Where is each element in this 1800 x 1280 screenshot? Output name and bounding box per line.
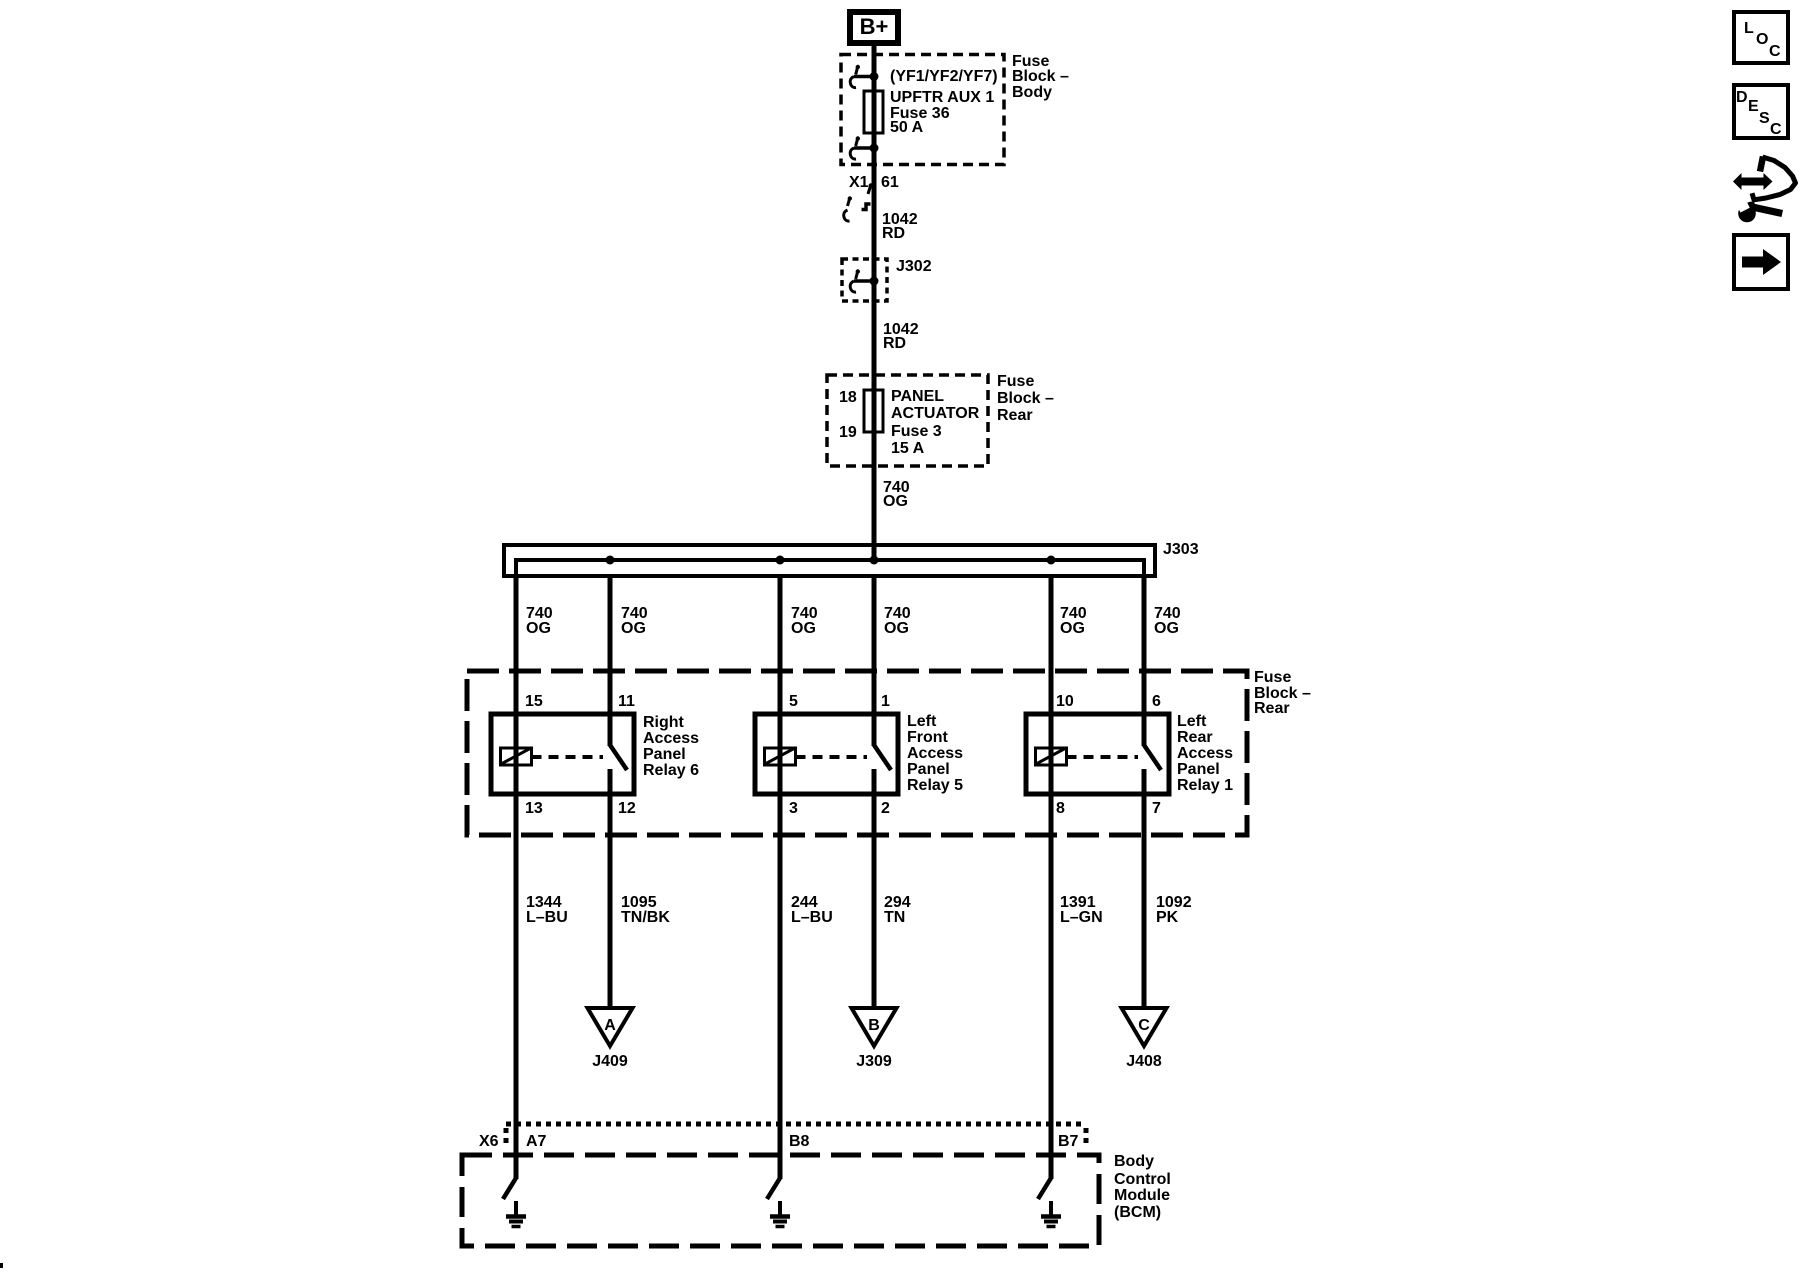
svg-text:Access: Access bbox=[1177, 745, 1233, 762]
svg-text:TN/BK: TN/BK bbox=[621, 909, 670, 926]
svg-text:Panel: Panel bbox=[1177, 761, 1220, 778]
svg-text:15 A: 15 A bbox=[891, 440, 925, 457]
svg-text:Block –: Block – bbox=[1012, 68, 1069, 85]
svg-text:RD: RD bbox=[883, 335, 906, 352]
svg-text:C: C bbox=[1138, 1017, 1150, 1034]
svg-text:J303: J303 bbox=[1163, 541, 1199, 558]
svg-text:13: 13 bbox=[525, 800, 543, 817]
svg-text:Access: Access bbox=[907, 745, 963, 762]
svg-text:15: 15 bbox=[525, 693, 543, 710]
svg-text:OG: OG bbox=[791, 620, 816, 637]
svg-text:2: 2 bbox=[881, 800, 890, 817]
svg-text:12: 12 bbox=[618, 800, 636, 817]
svg-text:6: 6 bbox=[1152, 693, 1161, 710]
svg-text:18: 18 bbox=[839, 389, 857, 406]
svg-text:11: 11 bbox=[618, 693, 635, 710]
svg-text:19: 19 bbox=[839, 424, 857, 441]
svg-text:ACTUATOR: ACTUATOR bbox=[891, 405, 980, 422]
svg-text:OG: OG bbox=[884, 620, 909, 637]
svg-text:Body: Body bbox=[1012, 84, 1052, 101]
svg-text:Left: Left bbox=[1177, 713, 1207, 730]
svg-text:TN: TN bbox=[884, 909, 905, 926]
svg-text:PANEL: PANEL bbox=[891, 388, 944, 405]
svg-text:Fuse: Fuse bbox=[997, 373, 1034, 390]
svg-text:Left: Left bbox=[907, 713, 937, 730]
svg-text:J408: J408 bbox=[1126, 1053, 1162, 1070]
svg-text:Right: Right bbox=[643, 714, 685, 731]
svg-text:E: E bbox=[1748, 98, 1759, 115]
svg-text:10: 10 bbox=[1056, 693, 1074, 710]
svg-text:C: C bbox=[1770, 121, 1782, 138]
svg-text:5: 5 bbox=[789, 693, 798, 710]
svg-text:Panel: Panel bbox=[907, 761, 950, 778]
svg-text:1: 1 bbox=[881, 693, 890, 710]
svg-text:Rear: Rear bbox=[1254, 700, 1290, 717]
svg-text:OG: OG bbox=[1154, 620, 1179, 637]
svg-text:J302: J302 bbox=[896, 258, 932, 275]
svg-text:L: L bbox=[1744, 20, 1754, 37]
svg-text:Fuse 3: Fuse 3 bbox=[891, 423, 942, 440]
svg-text:Body: Body bbox=[1114, 1153, 1154, 1170]
svg-text:50 A: 50 A bbox=[890, 119, 924, 136]
svg-text:Access: Access bbox=[643, 730, 699, 747]
svg-text:PK: PK bbox=[1156, 909, 1179, 926]
svg-text:OG: OG bbox=[1060, 620, 1085, 637]
svg-text:RD: RD bbox=[882, 225, 905, 242]
svg-text:Rear: Rear bbox=[1177, 729, 1213, 746]
svg-text:61: 61 bbox=[881, 174, 899, 191]
svg-text:B8: B8 bbox=[789, 1133, 810, 1150]
svg-text:OG: OG bbox=[621, 620, 646, 637]
svg-text:B7: B7 bbox=[1058, 1133, 1079, 1150]
svg-text:J409: J409 bbox=[592, 1053, 628, 1070]
svg-text:S: S bbox=[1759, 110, 1770, 127]
svg-text:Panel: Panel bbox=[643, 746, 686, 763]
svg-text:Rear: Rear bbox=[997, 407, 1033, 424]
svg-text:Relay 6: Relay 6 bbox=[643, 762, 699, 779]
svg-text:OG: OG bbox=[526, 620, 551, 637]
svg-text:3: 3 bbox=[789, 800, 798, 817]
svg-text:Block –: Block – bbox=[997, 390, 1054, 407]
svg-text:J309: J309 bbox=[856, 1053, 892, 1070]
svg-text:A: A bbox=[604, 1017, 616, 1034]
svg-text:O: O bbox=[1756, 31, 1768, 48]
svg-text:X1: X1 bbox=[849, 174, 869, 191]
svg-text:L–GN: L–GN bbox=[1060, 909, 1103, 926]
svg-text:L–BU: L–BU bbox=[526, 909, 568, 926]
svg-text:Fuse: Fuse bbox=[1254, 669, 1291, 686]
svg-text:7: 7 bbox=[1152, 800, 1161, 817]
svg-text:A7: A7 bbox=[526, 1133, 547, 1150]
svg-text:OG: OG bbox=[883, 493, 908, 510]
svg-text:Relay 5: Relay 5 bbox=[907, 777, 963, 794]
svg-text:D: D bbox=[1736, 89, 1748, 106]
svg-text:Module: Module bbox=[1114, 1187, 1170, 1204]
svg-text:UPFTR AUX 1: UPFTR AUX 1 bbox=[890, 89, 994, 106]
svg-text:(YF1/YF2/YF7): (YF1/YF2/YF7) bbox=[890, 68, 998, 85]
svg-text:Control: Control bbox=[1114, 1171, 1171, 1188]
svg-text:(BCM): (BCM) bbox=[1114, 1204, 1161, 1221]
svg-text:B: B bbox=[868, 1017, 880, 1034]
svg-text:X6: X6 bbox=[479, 1133, 499, 1150]
svg-text:Front: Front bbox=[907, 729, 949, 746]
svg-text:L–BU: L–BU bbox=[791, 909, 833, 926]
svg-text:Relay 1: Relay 1 bbox=[1177, 777, 1233, 794]
svg-text:C: C bbox=[1769, 43, 1781, 60]
svg-text:B+: B+ bbox=[860, 14, 889, 39]
svg-text:8: 8 bbox=[1056, 800, 1065, 817]
